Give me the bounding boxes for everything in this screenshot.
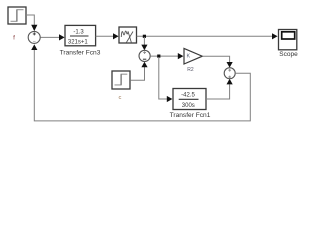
wire wave block to Scope — [137, 33, 278, 39]
svg-text:300s: 300s — [182, 103, 195, 109]
svg-text:R2: R2 — [187, 67, 194, 73]
transfer function block Transfer Fcn1 — [173, 89, 206, 110]
wire Transfer Fcn1 to sum3 — [206, 79, 233, 99]
summing junction sum2 — [139, 50, 150, 61]
step source block f — [8, 7, 26, 24]
transfer function block Transfer Fcn3 — [65, 25, 96, 45]
svg-text:Transfer Fcn3: Transfer Fcn3 — [60, 49, 101, 56]
summing junction sum1 — [28, 31, 40, 43]
feedback wire sum3 to sum1 — [31, 44, 250, 121]
svg-text:-1.3: -1.3 — [73, 29, 84, 35]
gain block R2 — [184, 48, 202, 64]
node branch to Transfer Fcn1 — [157, 55, 172, 103]
svg-text:-42.5: -42.5 — [181, 93, 195, 99]
wire sum1 to Transfer Fcn3 — [41, 34, 65, 40]
wire sum2 to gain R2 — [150, 53, 183, 59]
svg-text:321s+1: 321s+1 — [68, 40, 89, 46]
wire step f to sum1 — [26, 15, 37, 31]
node branch on scope wire — [141, 35, 147, 51]
svg-text:Scope: Scope — [279, 51, 298, 58]
svg-text:Transfer Fcn1: Transfer Fcn1 — [170, 112, 211, 119]
svg-text:f: f — [13, 35, 15, 42]
wire Transfer Fcn3 to wave block — [96, 33, 119, 39]
wire step c to sum2 — [130, 62, 147, 81]
summing junction sum3 — [224, 68, 235, 79]
step source block c — [112, 71, 130, 89]
nonlinear wave block — [119, 27, 137, 43]
scope block — [279, 30, 297, 50]
svg-text:K: K — [186, 54, 190, 60]
wire gain R2 to sum3 — [202, 56, 232, 67]
svg-text:c: c — [119, 95, 122, 101]
